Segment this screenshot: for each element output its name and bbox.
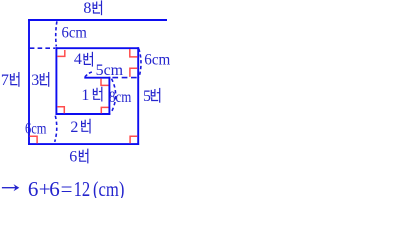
svg-text:(cm): (cm) [93, 177, 124, 198]
svg-text:6cm: 6cm [144, 52, 171, 69]
svg-text:2: 2 [70, 119, 78, 136]
svg-text:8cm: 8cm [109, 89, 132, 106]
svg-text:=: = [61, 177, 73, 198]
svg-text:6: 6 [28, 177, 39, 198]
svg-text:5: 5 [143, 88, 151, 105]
svg-text:6: 6 [69, 149, 77, 166]
svg-text:6cm: 6cm [25, 121, 47, 138]
svg-text:6: 6 [49, 177, 60, 198]
svg-text:8: 8 [83, 0, 91, 17]
svg-text:12: 12 [74, 177, 91, 198]
svg-text:4: 4 [74, 51, 82, 68]
svg-text:6cm: 6cm [62, 25, 88, 42]
svg-text:7: 7 [1, 72, 9, 89]
svg-text:5cm: 5cm [96, 62, 124, 79]
svg-text:3: 3 [31, 72, 39, 89]
svg-text:1: 1 [81, 87, 89, 104]
